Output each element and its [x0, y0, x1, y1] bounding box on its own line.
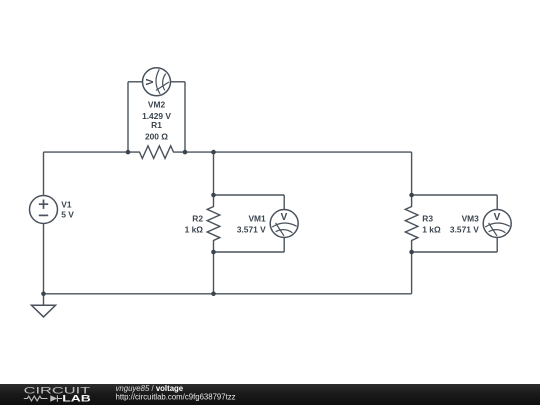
wire VM2 branch left vertical [127, 82, 129, 152]
wire VM1 branch top horizontal [214, 194, 285, 196]
wire mid vertical (top wire to R2 top) [213, 152, 215, 195]
svg-text:1 kΩ: 1 kΩ [185, 225, 204, 235]
resistor R2 [207, 195, 220, 252]
voltmeter VM2 [143, 68, 171, 96]
svg-text:3.571 V: 3.571 V [237, 225, 266, 235]
wire VM3 branch bottom horizontal [412, 251, 498, 253]
wire right vertical (top corner to R3 top) [411, 152, 413, 195]
wire top horizontal net from V1 to R1 left [44, 151, 129, 153]
svg-text:1 kΩ: 1 kΩ [422, 225, 441, 235]
node junction ground [41, 292, 46, 297]
svg-text:200 Ω: 200 Ω [145, 132, 168, 142]
wire R3 bottom to bottom corner [411, 252, 413, 294]
wire VM3 top lead vertical [496, 195, 498, 210]
wire bottom horizontal (R2 bottom junction to right corner) [214, 293, 412, 295]
node junction bottom mid [211, 292, 216, 297]
voltage source V1 [30, 196, 58, 224]
footer bar [0, 384, 540, 405]
node junction R3 top [409, 193, 414, 198]
wire left vertical top (corner to V1 plus) [43, 152, 45, 195]
svg-text:R3: R3 [422, 214, 433, 224]
resistor R1 [128, 146, 185, 159]
node junction top mid [211, 150, 216, 155]
svg-text:R2: R2 [192, 214, 203, 224]
svg-text:VM2: VM2 [148, 99, 166, 109]
wire VM1 branch bottom horizontal [214, 251, 285, 253]
wire VM2 branch right horizontal lead [171, 81, 186, 83]
wire VM1 bottom lead vertical [283, 238, 285, 253]
node junction R1 right [183, 150, 188, 155]
ground [32, 305, 56, 317]
voltmeter VM3 [483, 210, 511, 238]
wire VM3 branch top horizontal [412, 194, 498, 196]
svg-text:R1: R1 [151, 120, 162, 130]
svg-text:V1: V1 [61, 200, 72, 210]
svg-text:3.571 V: 3.571 V [450, 225, 479, 235]
voltmeter VM1 [270, 210, 298, 238]
wire left vertical bottom (V1 minus to ground junction) [43, 224, 45, 294]
svg-text:LAB: LAB [62, 394, 91, 405]
node junction R2 top [211, 193, 216, 198]
wire top horizontal R1 right to mid junction [185, 151, 214, 153]
node junction R2 bottom [211, 250, 216, 255]
node junction R1 left [126, 150, 131, 155]
CircuitLab logo schematic line (resistor + diode) [24, 395, 62, 401]
CircuitLab logo diode triangle [50, 395, 57, 402]
wire VM2 branch left horizontal lead [128, 81, 143, 83]
svg-text:VM3: VM3 [462, 214, 480, 224]
svg-text:http://circuitlab.com/c9fg6387: http://circuitlab.com/c9fg638797tzz [116, 392, 236, 401]
svg-text:VM1: VM1 [248, 214, 266, 224]
wire R2 bottom to bottom wire [213, 252, 215, 294]
wire VM3 bottom lead vertical [496, 238, 498, 253]
wire top horizontal mid junction to right corner [214, 151, 412, 153]
wire VM2 branch right vertical [184, 82, 186, 152]
svg-text:5 V: 5 V [61, 210, 74, 220]
node junction R3 bottom [409, 250, 414, 255]
wire VM1 top lead vertical [283, 195, 285, 210]
wire bottom horizontal (ground junction to R2 bottom junction) [44, 293, 214, 295]
wire ground stub [43, 294, 45, 306]
resistor R3 [405, 195, 418, 252]
